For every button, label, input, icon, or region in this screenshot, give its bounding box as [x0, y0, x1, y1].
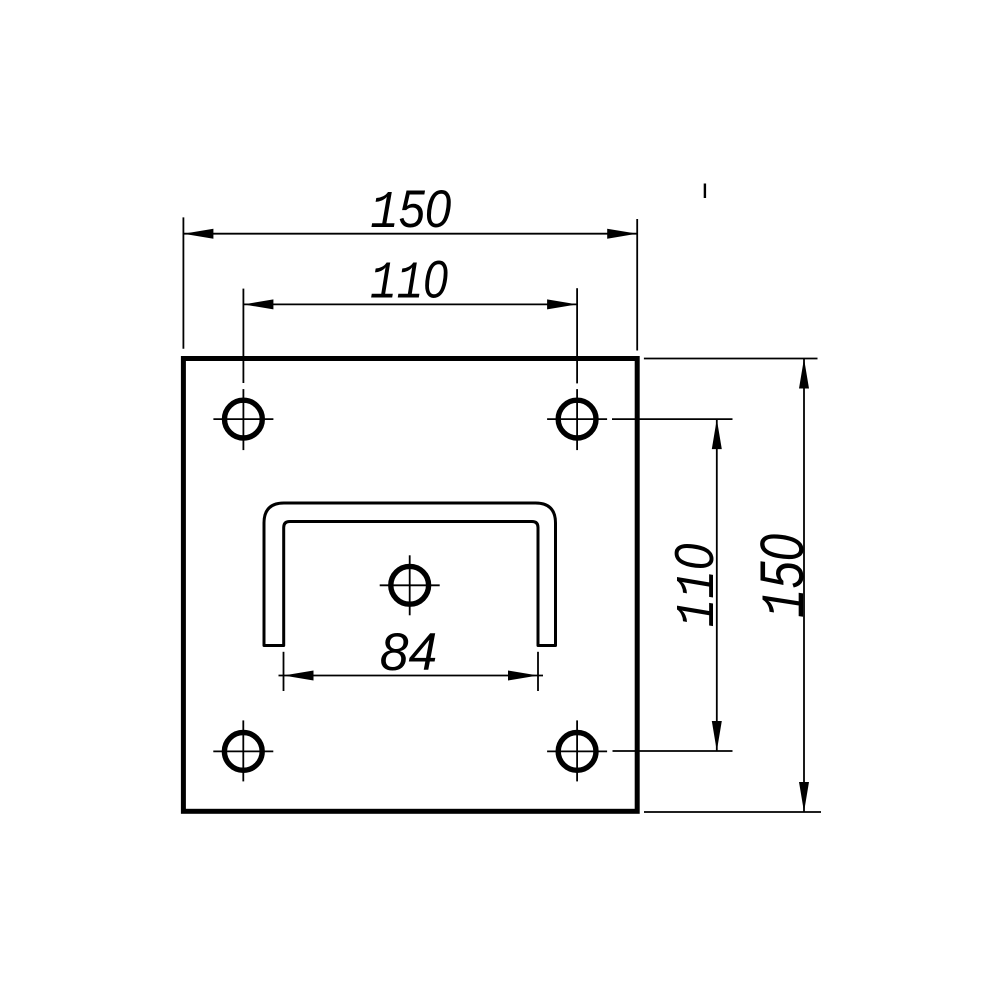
svg-text:84: 84 — [380, 624, 438, 682]
svg-text:150: 150 — [370, 180, 451, 243]
hole bottom-right — [547, 720, 607, 781]
hole bottom-left — [213, 720, 273, 781]
dimension 150 right — [644, 359, 822, 813]
svg-text:110: 110 — [370, 251, 448, 314]
dimension 110 right — [612, 419, 733, 751]
hole top-left — [213, 389, 273, 450]
plate outline — [183, 359, 637, 812]
hole top-right — [547, 389, 607, 450]
U-channel profile — [264, 503, 556, 646]
dimension 84 — [279, 624, 544, 691]
dimension 150 top — [183, 180, 637, 351]
svg-text:110: 110 — [663, 543, 730, 627]
stray tick mark — [704, 184, 706, 199]
dimension 110 top — [243, 251, 577, 383]
svg-text:150: 150 — [748, 534, 822, 618]
hole center — [380, 555, 440, 615]
